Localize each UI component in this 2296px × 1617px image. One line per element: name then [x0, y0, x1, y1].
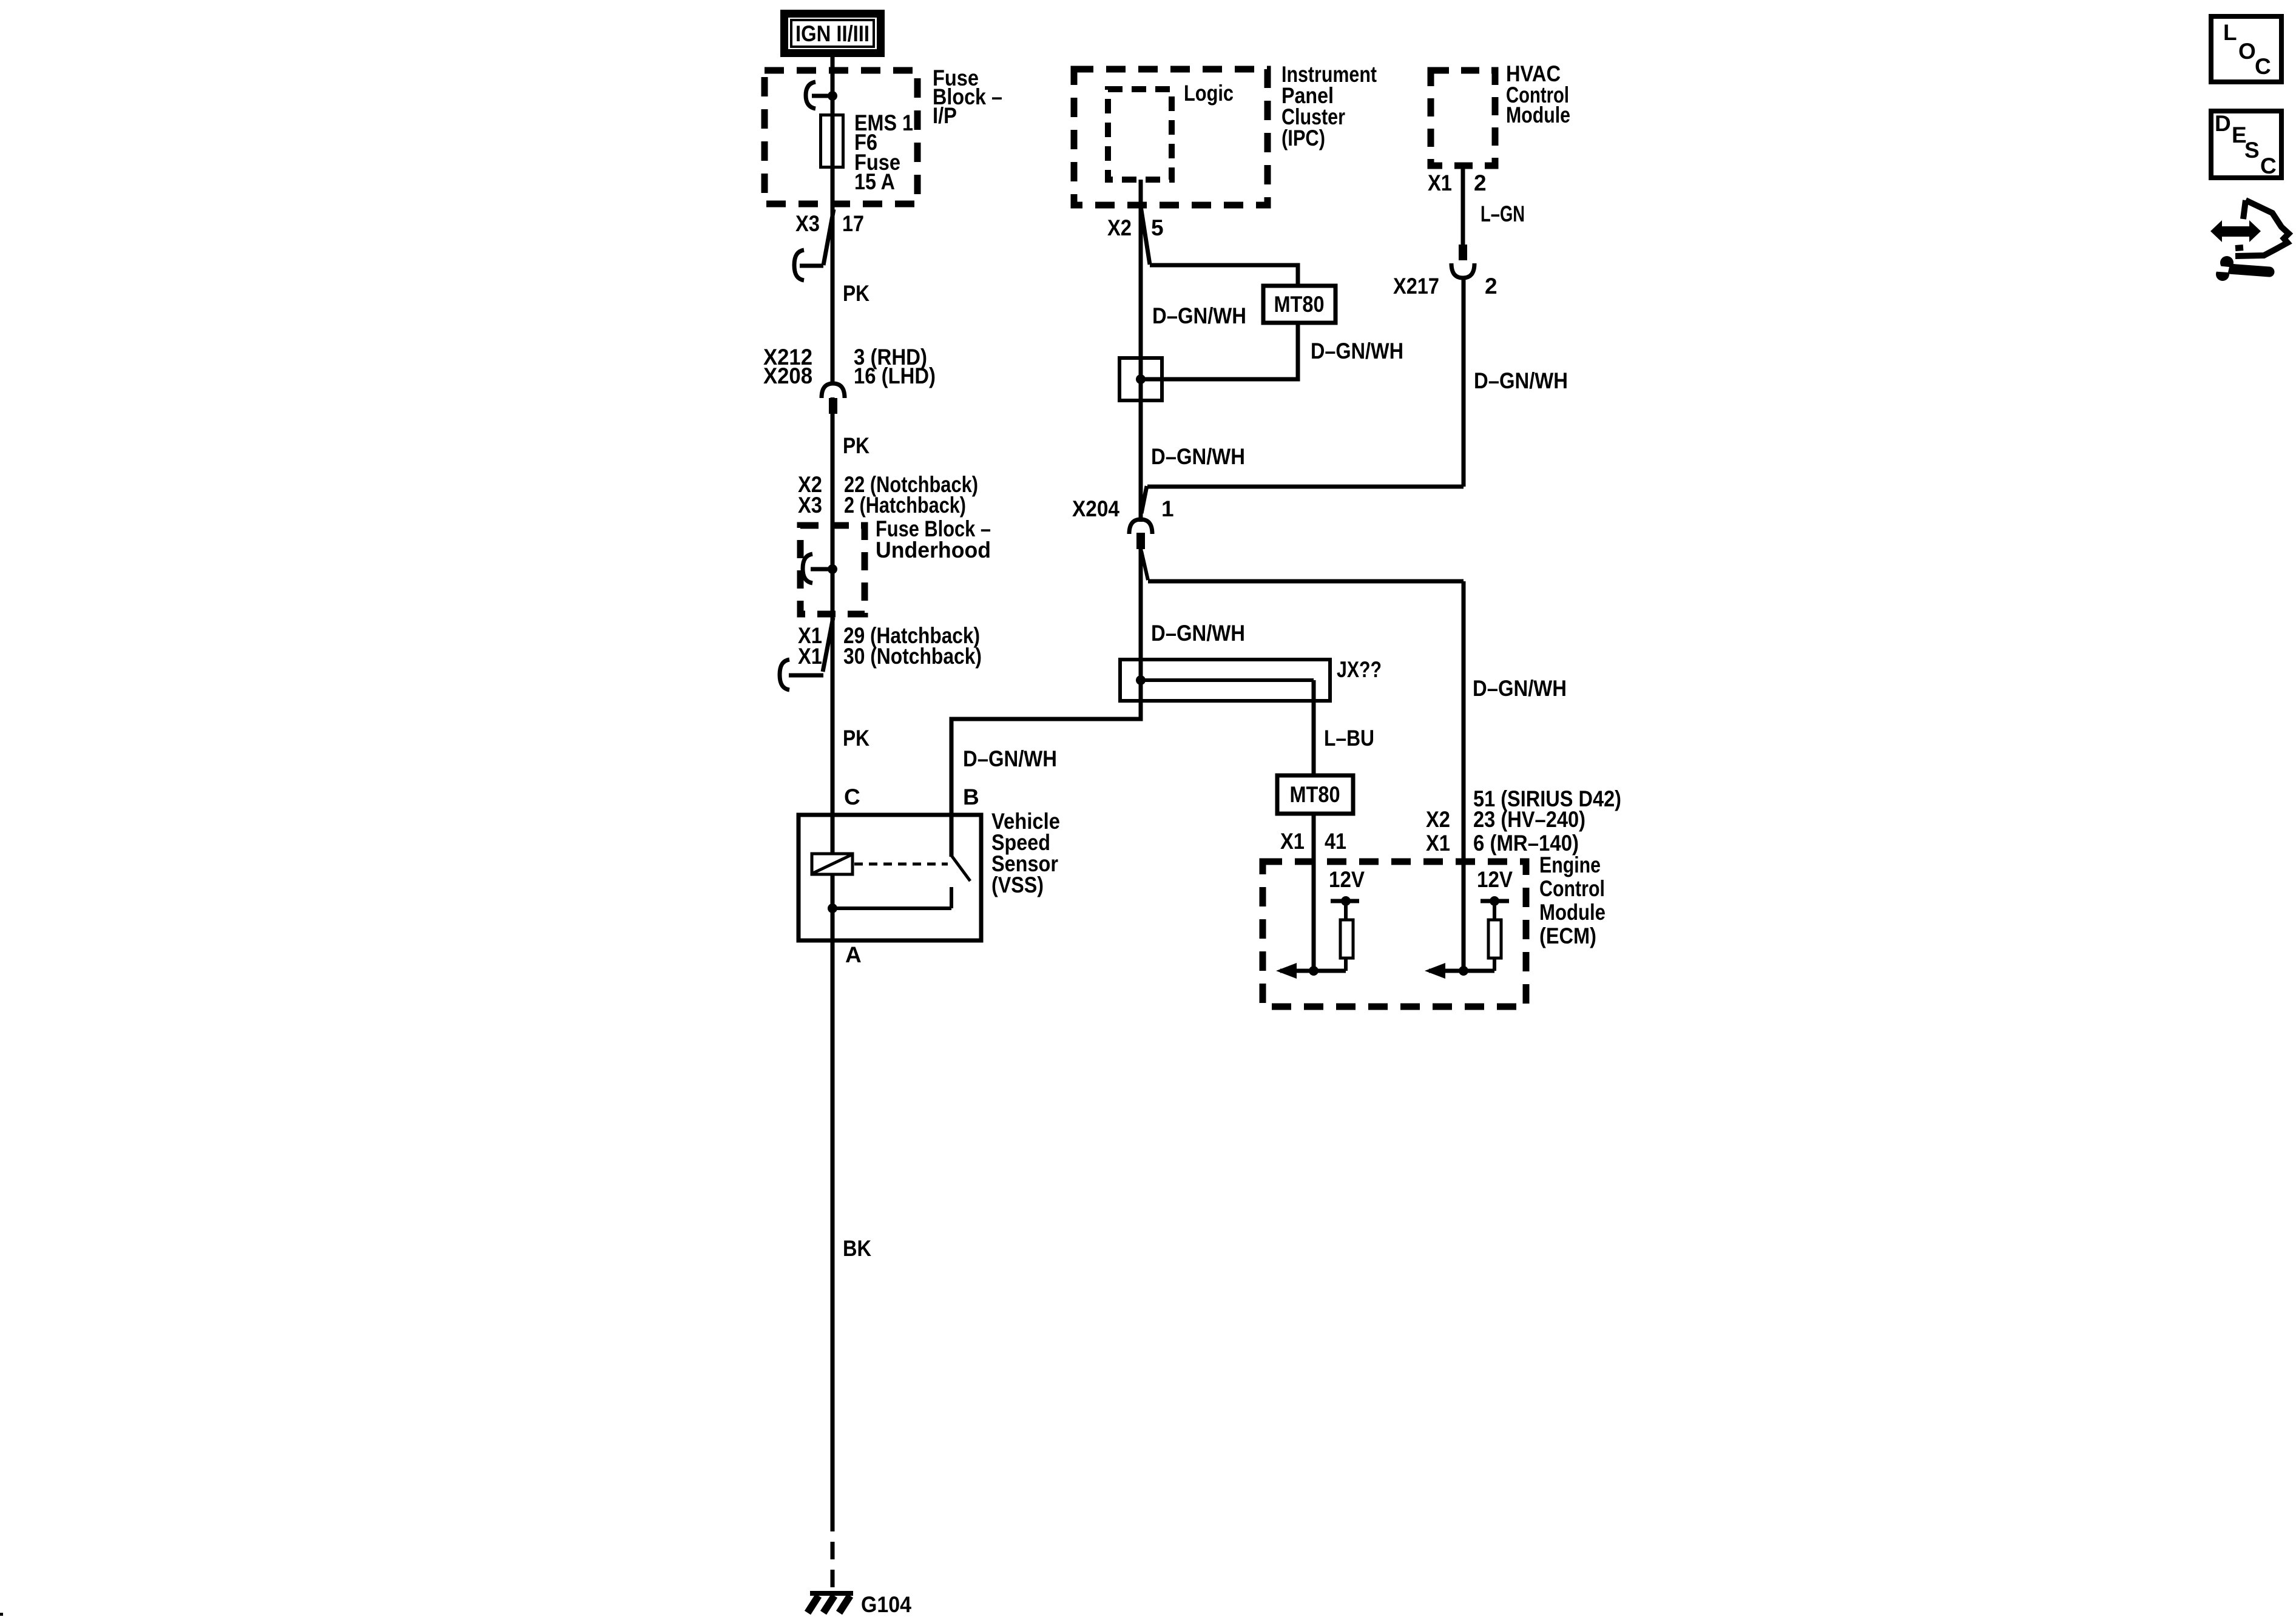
label Instrument Panel Cluster (IPC)	[1281, 62, 1377, 150]
vehicle speed sensor VSS box	[799, 815, 981, 940]
svg-text:X1: X1	[1428, 170, 1452, 195]
icon adjust arrow-wrench	[2210, 200, 2289, 281]
pullup resistor left	[1331, 896, 1359, 971]
svg-text:IGN II/III: IGN II/III	[795, 21, 869, 46]
svg-text:MT80: MT80	[1290, 782, 1340, 807]
svg-text:12V: 12V	[1329, 867, 1365, 892]
svg-text:1: 1	[1161, 496, 1174, 521]
svg-text:X1: X1	[1280, 829, 1305, 854]
connector labels X2 X3 22 (Notchback) 2 (Hatchback)	[798, 472, 978, 518]
wire label BK	[843, 1236, 871, 1261]
svg-text:L–GN: L–GN	[1481, 201, 1525, 226]
pin labels X2 X1 51 23 6	[1426, 786, 1621, 856]
svg-text:C: C	[2255, 54, 2271, 79]
wire label D-GN/WH (B wire)	[963, 746, 1057, 771]
pin labels X2 5	[1107, 215, 1164, 240]
inline connector X212/X208	[822, 383, 845, 414]
IPC logic inner dashed box	[1108, 89, 1172, 180]
clip hook below underhood	[780, 660, 823, 690]
ECM internal wire left with arrow	[1276, 963, 1346, 979]
VSS internal wire to A	[828, 903, 951, 913]
label Logic	[1184, 81, 1234, 106]
engine control module dashed box	[1263, 862, 1526, 1007]
pin labels X3 17	[795, 211, 864, 236]
pin labels X1 2 (HVAC)	[1428, 170, 1487, 195]
fuse block I/P dashed box	[765, 70, 917, 204]
svg-text:(ECM): (ECM)	[1539, 923, 1596, 948]
label G104	[861, 1592, 911, 1617]
svg-text:Module: Module	[1539, 900, 1606, 925]
svg-text:D–GN/WH: D–GN/WH	[1311, 339, 1403, 363]
wire label PK 2	[843, 433, 869, 458]
svg-text:X1: X1	[798, 644, 822, 669]
svg-text:17: 17	[842, 211, 864, 236]
svg-text:X3: X3	[798, 493, 822, 518]
svg-text:X217: X217	[1393, 274, 1439, 299]
icon DESC box	[2211, 111, 2281, 178]
ground G104	[808, 1593, 853, 1613]
inline connector X217	[1451, 245, 1474, 278]
svg-text:D: D	[2215, 111, 2231, 136]
label Vehicle Speed Sensor (VSS)	[991, 809, 1060, 897]
clip hook at fuse block feed	[806, 82, 832, 109]
svg-text:D–GN/WH: D–GN/WH	[1152, 303, 1246, 328]
wire label PK 3	[843, 726, 869, 751]
svg-text:C: C	[844, 785, 860, 809]
svg-text:PK: PK	[843, 281, 869, 306]
svg-text:41: 41	[1325, 829, 1346, 854]
connector labels X204 1	[1072, 496, 1174, 521]
wire label D-GN/WH (right)	[1473, 676, 1567, 701]
connector labels X212 X208 3 (RHD) 16 (LHD)	[763, 345, 936, 388]
wire label PK	[843, 281, 869, 306]
svg-text:2: 2	[1485, 274, 1497, 299]
svg-text:A: A	[845, 942, 862, 967]
svg-text:15 A: 15 A	[854, 169, 895, 194]
svg-text:X204: X204	[1072, 496, 1119, 521]
svg-text:Underhood: Underhood	[876, 538, 991, 562]
svg-text:JX??: JX??	[1337, 657, 1382, 682]
splice pack JX??	[1120, 660, 1330, 701]
instrument panel cluster dashed box	[1074, 69, 1268, 205]
svg-text:2: 2	[1474, 170, 1487, 195]
wire label D-GN/WH (above JX)	[1151, 621, 1245, 646]
svg-text:2 (Hatchback): 2 (Hatchback)	[844, 493, 966, 518]
svg-text:Engine: Engine	[1539, 852, 1601, 877]
svg-text:I/P: I/P	[933, 103, 957, 128]
svg-text:X2: X2	[1107, 215, 1132, 240]
wire: HVAC pin 2 down	[1461, 166, 1465, 245]
svg-text:(VSS): (VSS)	[991, 873, 1044, 897]
svg-text:X2: X2	[1426, 807, 1450, 832]
svg-text:16 (LHD): 16 (LHD)	[854, 363, 936, 388]
svg-text:5: 5	[1151, 215, 1164, 240]
wire label D-GN/WH (above X204)	[1151, 444, 1245, 469]
wire: IPC branch to MT80	[1150, 265, 1298, 286]
terminal label A	[845, 942, 862, 967]
connector slash X1/29	[823, 618, 833, 672]
svg-text:12V: 12V	[1477, 867, 1513, 892]
svg-text:23 (HV–240): 23 (HV–240)	[1473, 807, 1585, 832]
svg-text:Logic: Logic	[1184, 81, 1234, 106]
svg-text:D–GN/WH: D–GN/WH	[1473, 676, 1567, 701]
svg-text:D–GN/WH: D–GN/WH	[963, 746, 1057, 771]
svg-text:D–GN/WH: D–GN/WH	[1151, 621, 1245, 646]
svg-text:MT80: MT80	[1274, 292, 1325, 317]
VSS switch blade	[951, 856, 970, 908]
svg-text:B: B	[963, 785, 979, 809]
svg-text:X3: X3	[795, 211, 820, 236]
wire: middle vertical below X204	[1139, 549, 1143, 660]
label 12V (left)	[1329, 867, 1365, 892]
svg-text:PK: PK	[843, 726, 869, 751]
svg-text:D–GN/WH: D–GN/WH	[1151, 444, 1245, 469]
VSS actuation dashed link	[854, 863, 948, 866]
label EMS 1 F6 Fuse 15 A	[854, 110, 913, 194]
wire: MT80 down to junction square	[1141, 323, 1298, 379]
wire: dashed ground segment	[831, 1514, 835, 1592]
svg-text:S: S	[2244, 138, 2260, 163]
wire: X204 to ECM branch	[1141, 551, 1464, 581]
svg-text:D–GN/WH: D–GN/WH	[1474, 368, 1568, 393]
svg-text:(IPC): (IPC)	[1281, 126, 1325, 150]
label JX??	[1337, 657, 1382, 682]
wire label D-GN/WH (left of MT80)	[1152, 303, 1246, 328]
ECM internal wire right with arrow	[1425, 963, 1494, 979]
connector labels X217 2	[1393, 274, 1497, 299]
pullup resistor right	[1481, 896, 1509, 971]
label Fuse Block - I/P	[933, 66, 1002, 128]
clip hook below fuse block	[794, 250, 823, 280]
page corner mark	[0, 1613, 3, 1616]
svg-text:BK: BK	[843, 1236, 871, 1261]
connector slash X3/17	[823, 209, 834, 265]
wire: VSS B branch from splice	[951, 701, 1141, 857]
svg-text:30 (Notchback): 30 (Notchback)	[843, 644, 982, 669]
junction square with dot	[1119, 358, 1162, 400]
connector slash X2/5	[1141, 206, 1150, 265]
wire label D-GN/WH (HVAC)	[1474, 368, 1568, 393]
HVAC control module dashed box	[1431, 70, 1495, 166]
terminal labels C B	[844, 785, 979, 809]
svg-text:C: C	[2260, 154, 2277, 178]
wire: left main PK/BK vertical	[831, 57, 835, 1514]
svg-text:Control: Control	[1539, 876, 1605, 901]
pin labels X1 41	[1280, 829, 1346, 854]
wire: HVAC branch horizontal into X204	[1141, 486, 1464, 513]
svg-text:L–BU: L–BU	[1324, 726, 1374, 751]
label 12V (right)	[1477, 867, 1513, 892]
VSS sensor coil	[812, 854, 853, 874]
svg-text:Module: Module	[1506, 103, 1570, 127]
clip hook underhood	[803, 554, 832, 583]
label MT80 (IPC branch)	[1263, 286, 1335, 323]
svg-text:X208: X208	[763, 363, 812, 388]
svg-text:X1: X1	[1426, 831, 1450, 856]
wire: JX to MT80 (L-BU)	[1312, 680, 1316, 775]
svg-text:6 (MR–140): 6 (MR–140)	[1473, 831, 1579, 856]
wire label D-GN/WH (below MT80)	[1311, 339, 1403, 363]
wire: MT80 to ECM pin 41	[1312, 814, 1316, 971]
wire label L-GN	[1481, 201, 1525, 226]
wire: X217 down to X204 branch	[1462, 277, 1466, 487]
connector labels X1 X1 29 (Hatchback) 30 (Notchback)	[798, 623, 982, 669]
fuse EMS 1 F6 15 A	[821, 115, 843, 167]
wire: right vertical to ECM pin 6	[1462, 581, 1466, 971]
svg-text:L: L	[2223, 20, 2237, 45]
label MT80 (ECM branch)	[1277, 775, 1353, 814]
wire label L-BU	[1324, 726, 1374, 751]
junction dot underhood	[828, 564, 837, 574]
svg-text:O: O	[2238, 39, 2256, 64]
fuse block underhood dashed box	[800, 525, 865, 614]
label HVAC Control Module	[1506, 61, 1570, 127]
svg-text:G104: G104	[861, 1592, 911, 1617]
icon LOC box	[2211, 16, 2281, 82]
power label IGN II/III	[785, 14, 881, 53]
label Fuse Block - Underhood	[876, 516, 991, 562]
svg-text:PK: PK	[843, 433, 869, 458]
wire: middle main D-GN/WH vertical	[1139, 180, 1143, 701]
junction dot in fuse block	[828, 91, 837, 101]
label Engine Control Module (ECM)	[1539, 852, 1606, 948]
inline connector X204	[1129, 519, 1152, 549]
